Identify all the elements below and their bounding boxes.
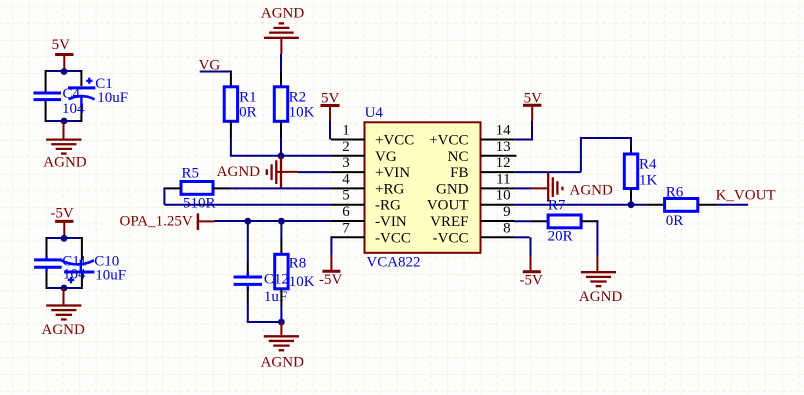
wire R5 right to pin4 <box>213 187 331 189</box>
ground AGND (pin 3) <box>217 156 298 188</box>
svg-text:1: 1 <box>342 123 350 139</box>
wire node to AGND <box>280 322 282 336</box>
wire bottom-left cap loop <box>47 237 82 289</box>
svg-text:FB: FB <box>450 165 468 181</box>
port OPA_1.25V <box>120 213 215 230</box>
svg-text:11: 11 <box>496 171 510 187</box>
svg-text:-VCC: -VCC <box>433 230 469 246</box>
wire pin9 to R7 <box>514 220 531 222</box>
capacitor C4 <box>34 86 86 117</box>
node top-left 5V <box>61 68 68 75</box>
svg-text:R6: R6 <box>666 184 684 200</box>
wire AGND to pin3 <box>298 171 331 173</box>
svg-text:4: 4 <box>342 171 350 187</box>
resistor R8 <box>275 254 315 290</box>
svg-text:-RG: -RG <box>375 198 401 214</box>
pin 4 (+RG) <box>331 171 405 197</box>
ground AGND under R8 <box>261 336 304 370</box>
pin 12 (FB) <box>450 155 514 181</box>
svg-text:510R: 510R <box>183 195 216 211</box>
svg-text:+VIN: +VIN <box>375 165 410 181</box>
wire pin6 <box>214 220 331 222</box>
wire R2 to pin2 junction <box>280 121 282 156</box>
svg-text:K_VOUT: K_VOUT <box>716 188 776 204</box>
wire R4 to VOUT line <box>630 189 632 205</box>
svg-text:+RG: +RG <box>375 181 404 197</box>
svg-text:10: 10 <box>496 188 511 204</box>
svg-text:0R: 0R <box>239 105 257 121</box>
pin 11 (GND) <box>436 171 514 197</box>
wire to ground (top-left) <box>63 121 65 139</box>
pin 13 (NC) <box>448 139 517 165</box>
svg-text:R2: R2 <box>289 90 307 106</box>
node bottom of cap pair <box>61 118 68 125</box>
svg-text:AGND: AGND <box>579 289 622 305</box>
pin 5 (-RG) <box>331 188 401 214</box>
power 5V (pin 14) <box>523 90 542 120</box>
svg-text:-5V: -5V <box>520 272 543 288</box>
power 5V (top-left) <box>52 37 74 71</box>
pin 8 (-VCC) <box>433 220 515 246</box>
wire pin8 to -5V <box>514 237 530 271</box>
svg-text:VG: VG <box>375 149 397 165</box>
svg-text:C12: C12 <box>264 272 289 288</box>
svg-text:1K: 1K <box>639 172 658 188</box>
resistor R5 <box>181 166 216 212</box>
wire top-left cap loop <box>46 70 82 122</box>
svg-text:-5V: -5V <box>50 205 73 221</box>
resistor R7 <box>548 198 582 245</box>
svg-text:OPA_1.25V: OPA_1.25V <box>120 214 193 230</box>
svg-text:5V: 5V <box>52 37 71 53</box>
resistor R1 <box>224 87 256 122</box>
svg-text:R1: R1 <box>239 90 257 106</box>
pin 9 (VREF) <box>430 204 514 230</box>
svg-text:-VCC: -VCC <box>375 230 411 246</box>
pin 1 (+VCC) <box>331 123 414 149</box>
wire R1 to pin2 <box>230 121 331 156</box>
resistor R4 <box>624 154 657 189</box>
svg-text:VCA822: VCA822 <box>366 255 420 271</box>
wire R8 to ground node <box>280 289 282 322</box>
wire pin6 to C12 <box>247 221 249 276</box>
ground AGND top-left <box>43 140 86 171</box>
node R8 branch <box>278 218 285 225</box>
op-amp U4 VCA822 <box>365 105 481 271</box>
svg-text:9: 9 <box>503 204 511 220</box>
power -5V (bottom-left) <box>50 205 73 238</box>
resistor R6 <box>665 184 698 229</box>
svg-text:AGND: AGND <box>261 354 304 370</box>
node C12 branch <box>244 218 251 225</box>
wire AGND to R2 <box>280 54 282 87</box>
svg-text:14: 14 <box>496 123 512 139</box>
svg-text:5V: 5V <box>321 90 340 106</box>
pin 14 (+VCC) <box>429 123 514 149</box>
ground AGND under R7 <box>579 272 622 305</box>
svg-text:R8: R8 <box>289 256 307 272</box>
ground AGND bottom-left <box>42 306 85 339</box>
svg-text:AGND: AGND <box>42 322 85 338</box>
svg-text:8: 8 <box>503 220 511 236</box>
svg-text:0R: 0R <box>666 213 684 229</box>
wire 5V to pin1 <box>329 121 331 140</box>
wire pin7 to -5V <box>330 236 332 271</box>
resistor R2 <box>274 87 314 122</box>
capacitor C1 (polarized) <box>68 76 128 106</box>
wire pin12 FB to R4 <box>514 137 631 172</box>
pin 6 (-VIN) <box>331 204 407 230</box>
node VOUT/R4 <box>628 201 635 208</box>
node R8/C12 ground <box>278 319 285 326</box>
node -5V top <box>61 235 68 242</box>
svg-text:+VCC: +VCC <box>375 133 414 149</box>
wire R6 to K_VOUT <box>698 204 748 206</box>
svg-text:10K: 10K <box>289 105 315 121</box>
ground AGND (top, above R2) <box>261 6 304 55</box>
svg-text:AGND: AGND <box>217 164 260 180</box>
svg-text:AGND: AGND <box>570 183 613 199</box>
wire C12 to ground node <box>247 286 282 322</box>
svg-text:R4: R4 <box>639 156 657 172</box>
wire pin6 to R8 <box>280 221 282 254</box>
pin 10 (VOUT) <box>427 188 515 214</box>
svg-text:10K: 10K <box>289 274 315 290</box>
pin 2 (VG) <box>331 139 397 165</box>
power -5V (pin 8) <box>520 272 543 289</box>
pin 3 (+VIN) <box>331 155 410 181</box>
svg-text:1uF: 1uF <box>264 289 287 305</box>
wire R7 to AGND <box>581 220 598 272</box>
svg-text:GND: GND <box>436 181 469 197</box>
svg-text:+VCC: +VCC <box>429 133 468 149</box>
svg-text:104: 104 <box>63 267 86 283</box>
wire pin11 to AGND <box>514 187 532 189</box>
capacitor C10 (polarized) <box>61 253 126 283</box>
power -5V (pin 7) <box>319 271 342 288</box>
power 5V (pin 1) <box>321 90 340 121</box>
wire 5V to pin14 <box>514 121 533 141</box>
svg-text:NC: NC <box>448 149 469 165</box>
capacitor C12 <box>234 272 289 306</box>
wire to ground (bottom-left) <box>63 288 65 305</box>
capacitor C11 <box>34 253 87 282</box>
wire VG <box>200 71 231 88</box>
svg-text:R7: R7 <box>548 198 566 214</box>
svg-text:-5V: -5V <box>319 272 342 288</box>
svg-text:AGND: AGND <box>261 6 304 22</box>
svg-text:3: 3 <box>342 155 350 171</box>
svg-text:7: 7 <box>342 220 350 236</box>
wire VOUT pin10 <box>514 204 664 206</box>
svg-text:2: 2 <box>342 139 350 155</box>
svg-text:AGND: AGND <box>43 155 86 171</box>
ground AGND (pin 11) <box>532 173 613 202</box>
svg-text:6: 6 <box>342 204 350 220</box>
pin 7 (-VCC) <box>331 220 411 246</box>
svg-text:U4: U4 <box>365 105 384 121</box>
svg-text:13: 13 <box>496 139 511 155</box>
svg-text:5: 5 <box>342 188 350 204</box>
svg-text:20R: 20R <box>548 228 573 244</box>
svg-text:12: 12 <box>496 155 511 171</box>
wire R5 left down to pin5 <box>164 187 331 204</box>
node bottom-left cap bottom <box>61 285 68 292</box>
svg-text:R5: R5 <box>182 166 200 182</box>
svg-text:VREF: VREF <box>430 214 468 230</box>
svg-text:10uF: 10uF <box>97 90 128 106</box>
svg-text:10uF: 10uF <box>95 267 126 283</box>
node pin2 junction <box>278 152 285 159</box>
svg-text:-VIN: -VIN <box>375 214 407 230</box>
svg-text:VOUT: VOUT <box>427 198 469 214</box>
